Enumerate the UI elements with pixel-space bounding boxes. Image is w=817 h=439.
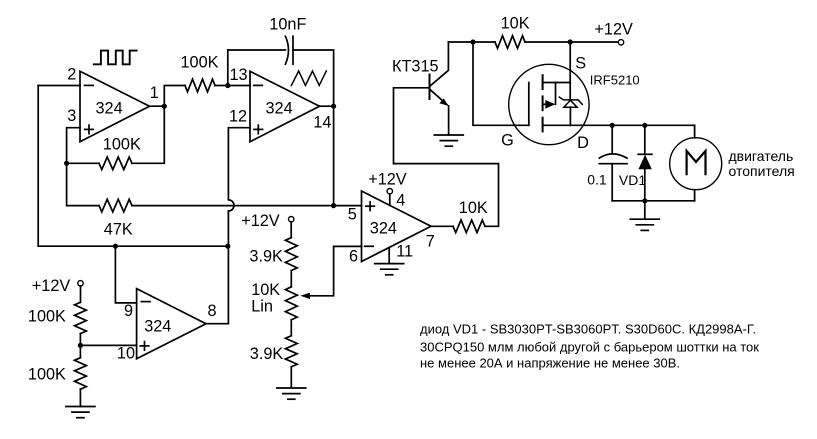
op-amp U1C triangle — [137, 289, 206, 359]
wire pin4 stub — [389, 194, 391, 205]
ground output — [630, 219, 659, 230]
wire pin13 stub — [227, 50, 229, 86]
wire feedback rail y246 — [38, 245, 228, 247]
wire output14 down — [333, 106, 335, 205]
wire bottom to ground — [644, 201, 646, 219]
motor M1 circle — [670, 138, 722, 190]
wire output8 — [206, 246, 228, 324]
wire R6 to pot — [290, 271, 292, 287]
resistor R5 100K body — [75, 358, 87, 390]
resistor R9 10K body — [453, 220, 485, 233]
capacitor C2 0.1 — [599, 154, 627, 164]
mosfet VT2 bulk arrow — [545, 100, 555, 109]
wire terminal to R4 — [80, 286, 82, 302]
wire R2 to node — [67, 162, 99, 164]
mosfet VT2 body diode triangle — [564, 100, 577, 107]
svg-text:10K: 10K — [501, 15, 530, 33]
svg-text:Lin: Lin — [251, 297, 273, 315]
potentiometer R7 10K body — [285, 287, 297, 320]
op-amp U1B minus sign pin6 — [365, 245, 374, 247]
wire source — [569, 42, 571, 83]
svg-text:100K: 100K — [181, 54, 219, 72]
wire output1 — [150, 105, 165, 107]
svg-text:10K: 10K — [459, 199, 488, 217]
svg-text:324: 324 — [266, 100, 293, 118]
wire output7 — [431, 225, 453, 227]
wire collector to node — [448, 41, 473, 43]
svg-text:9: 9 — [124, 302, 133, 320]
svg-text:47K: 47K — [104, 220, 133, 238]
node diode top — [642, 123, 647, 128]
node divider mid — [78, 343, 83, 348]
wire wiper — [310, 246, 334, 295]
resistor R10 10K body — [495, 36, 525, 49]
terminal +12V divider — [78, 281, 83, 286]
mosfet VT2 source stub — [543, 82, 571, 84]
motor M1 letter M — [687, 151, 706, 174]
wire diode to drain — [569, 107, 571, 125]
wire pin9 — [115, 246, 136, 303]
wire output14 — [320, 105, 334, 107]
wire 47K to pin5 — [132, 205, 362, 207]
mosfet VT2 gate bar — [528, 83, 530, 126]
node diode bottom — [642, 198, 647, 203]
wire R10 to S node — [525, 41, 570, 43]
op-amp U1A plus sign pin3 — [85, 125, 94, 134]
transistor Q1 base bar — [429, 75, 431, 100]
wire motor top — [694, 125, 696, 138]
square wave symbol — [94, 51, 137, 65]
mosfet VT2 drain stub — [543, 124, 571, 126]
resistor R3 47K body — [99, 199, 132, 212]
svg-text:12: 12 — [229, 107, 247, 125]
sawtooth symbol — [291, 71, 326, 85]
transistor Q1 emitter arrow — [439, 98, 448, 106]
wire pin12 — [228, 128, 250, 200]
wire node to R10 — [473, 41, 495, 43]
wire R4 to node — [79, 334, 81, 346]
op-amp U1A triangle — [80, 71, 150, 141]
op-amp U1A minus sign pin2 — [85, 84, 94, 86]
wire cap left — [228, 49, 286, 51]
wire motor bottom — [694, 190, 696, 201]
wire R5 to ground — [79, 389, 81, 406]
svg-text:+12V: +12V — [594, 20, 633, 38]
svg-text:отопителя: отопителя — [729, 163, 795, 179]
capacitor C1 10nF — [285, 36, 293, 64]
wire node to R5 — [79, 345, 81, 357]
wire R1 to pin13 — [215, 85, 250, 87]
ground emitter — [434, 135, 463, 146]
ground op-amp U1B pin11 — [375, 264, 404, 275]
op-amp U1C plus sign pin10 — [140, 342, 149, 351]
svg-text:+12V: +12V — [368, 171, 407, 189]
wire output1 down — [132, 106, 164, 163]
svg-text:G: G — [501, 132, 514, 150]
svg-text:100K: 100K — [28, 365, 66, 383]
svg-text:3.9K: 3.9K — [250, 345, 284, 363]
wire diode bottom — [644, 169, 646, 201]
ground divider — [66, 407, 95, 418]
transistor Q1 collector — [430, 42, 448, 86]
wire to +12V terminal — [570, 41, 618, 43]
svg-text:диод VD1 - SB3030PT-SB3060PT.: диод VD1 - SB3030PT-SB3060PT. S30D60C. К… — [420, 321, 756, 336]
wire pin2 input — [38, 85, 80, 87]
svg-text:324: 324 — [144, 317, 171, 335]
op-amp U1D minus sign pin13 — [254, 84, 263, 86]
wire drain line — [570, 124, 694, 126]
wire pin10 — [80, 344, 136, 346]
potentiometer wiper arrow — [300, 293, 310, 299]
terminal +12V top — [618, 40, 623, 45]
svg-text:S: S — [575, 55, 586, 73]
op-amp U1B plus sign pin5 — [366, 202, 375, 211]
diode VD1 cathode bar — [638, 153, 652, 155]
svg-text:6: 6 — [349, 247, 358, 265]
wire emitter to ground — [448, 106, 450, 135]
op-amp U1B triangle — [362, 191, 432, 262]
svg-text:8: 8 — [208, 302, 217, 320]
transistor Q1 emitter — [430, 90, 447, 105]
ground pot — [277, 388, 306, 399]
wire pin3 input — [67, 128, 80, 164]
diode VD1 anode wire — [644, 125, 646, 154]
node output14 — [331, 104, 336, 109]
node pin3 junction — [64, 161, 69, 166]
resistor R1 100K body — [185, 79, 215, 92]
op-amp U1C minus sign pin9 — [141, 301, 150, 303]
svg-text:10nF: 10nF — [269, 16, 306, 34]
resistor R8 3.9K body — [285, 336, 297, 367]
wire terminal to R6 — [290, 222, 292, 238]
svg-text:1: 1 — [150, 84, 159, 102]
node output1 — [162, 104, 167, 109]
mosfet VT2 body diode cathode bar — [559, 97, 582, 104]
svg-text:0.1: 0.1 — [587, 171, 607, 187]
svg-text:2: 2 — [67, 66, 76, 84]
svg-text:30CPQ150 млм любой другой с ба: 30CPQ150 млм любой другой с барьером шот… — [420, 339, 759, 354]
node source junction — [568, 39, 573, 44]
wire pin6 — [334, 245, 362, 247]
svg-text:3.9K: 3.9K — [249, 248, 283, 266]
wire node to 47K — [67, 163, 99, 205]
svg-text:13: 13 — [230, 66, 248, 84]
svg-text:двигатель: двигатель — [729, 148, 794, 164]
svg-text:14: 14 — [313, 113, 331, 131]
svg-text:+12V: +12V — [32, 277, 71, 295]
svg-text:3: 3 — [67, 107, 76, 125]
svg-text:+12V: +12V — [241, 212, 280, 230]
svg-text:КТ315: КТ315 — [392, 57, 439, 75]
wire hop over 47K — [228, 200, 234, 211]
wire pin11 stub — [388, 248, 390, 264]
wire cap right — [293, 50, 334, 106]
svg-text:324: 324 — [96, 100, 123, 118]
wire left rail down — [37, 86, 39, 247]
svg-text:4: 4 — [396, 191, 405, 209]
node cap top — [610, 123, 615, 128]
svg-text:7: 7 — [426, 232, 435, 250]
op-amp U1D plus sign pin12 — [254, 125, 263, 134]
resistor R4 100K body — [75, 302, 87, 333]
svg-text:10: 10 — [117, 344, 135, 362]
svg-text:100K: 100K — [103, 135, 141, 153]
node 47K pin5 junction — [331, 203, 336, 208]
svg-text:100K: 100K — [28, 308, 66, 326]
wire pin12 down to rail — [227, 211, 229, 246]
svg-text:VD1: VD1 — [619, 172, 646, 188]
node pin13 — [225, 83, 230, 88]
diode VD1 triangle — [638, 155, 651, 169]
wire cap top stub — [611, 125, 613, 153]
svg-text:IRF5210: IRF5210 — [590, 72, 640, 87]
svg-text:11: 11 — [396, 243, 413, 261]
wire gate — [473, 42, 529, 125]
mosfet VT2 channel dashes — [542, 75, 544, 131]
svg-text:324: 324 — [370, 219, 397, 237]
terminal +12V op-amp pin4 — [387, 189, 392, 194]
wire source to diode — [569, 83, 571, 100]
resistor R2 100K body — [99, 157, 132, 170]
wire pot to R8 — [290, 320, 292, 336]
wire R9 loop to base — [394, 88, 499, 227]
node base resistor junction — [470, 39, 475, 44]
node pin12 rail junction — [225, 244, 230, 249]
mosfet VT2 bulk stub — [543, 83, 556, 105]
svg-text:не менее 20А и напряжение не м: не менее 20А и напряжение не менее 30В. — [420, 355, 680, 370]
wire cap bottom stub — [611, 164, 613, 201]
svg-text:5: 5 — [348, 206, 357, 224]
op-amp U1D triangle — [250, 71, 320, 141]
resistor R6 3.9K body — [285, 238, 297, 271]
node pin9 junction — [113, 244, 118, 249]
wire output1 up — [164, 86, 185, 107]
svg-text:D: D — [577, 134, 589, 152]
mosfet VT2 circle — [509, 64, 589, 144]
wire R8 to ground — [290, 367, 292, 388]
terminal +12V pot — [289, 217, 294, 222]
wire bottom rail — [612, 200, 694, 202]
